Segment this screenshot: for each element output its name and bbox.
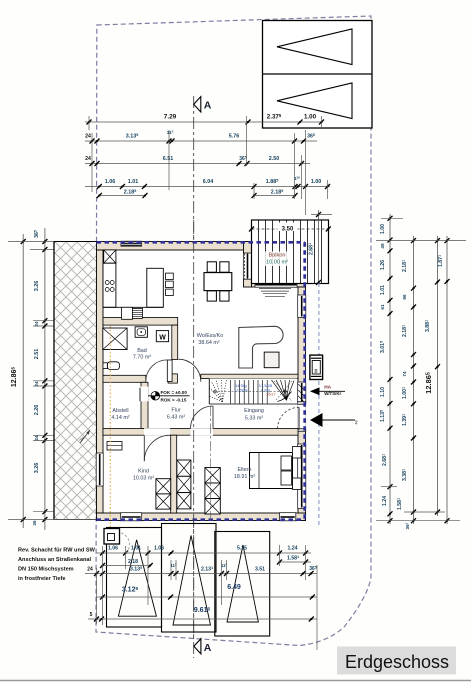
svg-text:1.26: 1.26: [380, 260, 386, 270]
kitchen counter bottom edge: [103, 306, 163, 308]
right wall window 3 (Eltern): [298, 444, 306, 509]
svg-text:1.10: 1.10: [380, 387, 386, 397]
svg-text:1.01: 1.01: [380, 285, 386, 295]
Abstell door opening: [141, 387, 149, 402]
hatched terrace area: [54, 242, 97, 520]
svg-text:Eingang: Eingang: [244, 408, 264, 414]
top exterior wall: [97, 242, 252, 251]
property boundary (dashed): [96, 16, 371, 646]
svg-text:18.91 m²: 18.91 m²: [234, 474, 255, 480]
section line A-A: [193, 96, 195, 658]
bottom dim sub 2.18: [103, 565, 151, 567]
corner wall window: [243, 253, 251, 279]
kitchen island: [147, 268, 164, 307]
svg-text:16/17: 16/17: [267, 393, 276, 397]
svg-text:10.00 m²: 10.00 m²: [266, 260, 288, 266]
svg-text:2.51: 2.51: [34, 349, 40, 360]
upper floor outline dashed blue right: [303, 242, 306, 519]
Kind shelf: [107, 442, 122, 451]
svg-text:7.70 m²: 7.70 m²: [133, 355, 151, 361]
washing machine W: [156, 331, 168, 342]
section marker A top: [194, 97, 201, 112]
shower: [103, 328, 127, 350]
upper floor outline dashed blue bottom: [97, 518, 305, 521]
svg-text:3.26: 3.26: [34, 463, 40, 474]
pillows: [281, 456, 292, 470]
balcony right dim: [318, 210, 320, 283]
left dim chain inner: [44, 228, 46, 530]
corner wall at balcony: [244, 242, 252, 288]
svg-text:24: 24: [34, 435, 39, 441]
svg-text:6.49: 6.49: [227, 584, 241, 591]
upper floor outline dashed blue top: [97, 241, 306, 244]
wall Kind/Eltern divider: [171, 435, 177, 513]
garage outline: [263, 21, 373, 129]
carport box 2: [162, 524, 217, 633]
svg-text:DN 150 Mischsystem: DN 150 Mischsystem: [18, 567, 74, 573]
garage roof arrow 1: [277, 29, 352, 65]
svg-text:24: 24: [85, 156, 91, 162]
svg-text:1.01: 1.01: [131, 546, 141, 552]
balcony door/window band: [255, 279, 297, 287]
left wall window (Kind): [96, 453, 103, 486]
svg-text:1.00: 1.00: [380, 224, 386, 234]
slope arrow 2%: [80, 430, 90, 443]
entrance door arc: [278, 407, 300, 429]
svg-text:1.24: 1.24: [287, 546, 297, 552]
kitchen wall cabinets: [166, 273, 174, 279]
bottom dim row 3: [97, 596, 318, 598]
carport roof arrow 3: [227, 545, 258, 622]
carport roof arrow 2: [173, 536, 211, 626]
right wall window 1: [298, 295, 306, 318]
Eltern wardrobe 2: [205, 468, 220, 484]
svg-text:17,5/28: 17,5/28: [234, 387, 248, 392]
carport box 3: [215, 532, 270, 637]
wall Bad bottom: [103, 375, 146, 382]
sofa: [239, 326, 283, 368]
stair winder cross dashes: [274, 381, 292, 401]
svg-text:Bad: Bad: [137, 348, 147, 354]
balcony label: [265, 252, 289, 267]
top wall window roller box: [121, 241, 143, 247]
svg-text:5: 5: [90, 612, 93, 618]
wall kitchen/Bad: [103, 317, 178, 325]
svg-text:2.50: 2.50: [269, 156, 280, 162]
svg-text:4 Stg: 4 Stg: [261, 387, 270, 392]
svg-text:1.06: 1.06: [154, 546, 164, 552]
bottom dim row 1: [97, 552, 312, 554]
stair straight steps: [229, 380, 231, 404]
living door arc: [178, 359, 201, 382]
balcony dim 3.50: [252, 228, 329, 230]
svg-text:Wo/Ess/Ko: Wo/Ess/Ko: [197, 333, 224, 339]
svg-text:5.25: 5.25: [237, 546, 247, 552]
top dim row 4: [85, 186, 330, 188]
bottom exterior wall: [97, 513, 306, 521]
svg-text:24: 24: [87, 567, 93, 573]
svg-text:3.50: 3.50: [282, 227, 294, 233]
Bad door leaf: [167, 360, 172, 382]
svg-text:49: 49: [380, 243, 385, 249]
sofa table: [264, 352, 279, 368]
bottom wall window 1: [121, 513, 142, 521]
entrance door opening: [298, 405, 306, 429]
page footer line: [0, 680, 471, 682]
wall living bottom: [201, 374, 298, 378]
top dim row 3: [85, 163, 310, 165]
svg-text:Erdgeschoss: Erdgeschoss: [345, 652, 449, 672]
svg-text:4.14 m²: 4.14 m²: [111, 415, 129, 421]
svg-text:38.64 m²: 38.64 m²: [198, 340, 219, 346]
entrance arrow: [310, 413, 323, 427]
svg-text:2.18: 2.18: [128, 559, 138, 565]
dining chairs: [207, 262, 216, 272]
svg-text:Eltern: Eltern: [237, 467, 251, 473]
Kind door arc: [144, 435, 170, 461]
wall hallway/bedrooms: [103, 429, 298, 436]
balcony deck: [252, 220, 329, 284]
nightstand 1: [293, 447, 302, 459]
svg-text:1.00: 1.00: [311, 179, 322, 185]
Kind door opening: [144, 428, 170, 435]
stair winder left dotted: [210, 396, 223, 402]
svg-text:W/TS/Kr: W/TS/Kr: [324, 391, 341, 396]
svg-text:24: 24: [85, 134, 91, 140]
svg-text:1.06: 1.06: [105, 179, 116, 185]
svg-text:1.01: 1.01: [128, 179, 139, 185]
right exterior wall: [298, 287, 306, 521]
svg-text:A: A: [204, 642, 212, 654]
top dim row 1: [85, 121, 322, 123]
carport roof arrow 1: [118, 540, 156, 616]
right dim chain B: [413, 236, 415, 524]
svg-text:HA: HA: [324, 385, 331, 391]
svg-text:36: 36: [32, 520, 37, 526]
svg-text:W: W: [159, 335, 166, 342]
svg-text:A: A: [204, 100, 212, 112]
washbasin: [135, 327, 147, 338]
Eltern door opening: [191, 428, 214, 435]
nightstand 2: [293, 478, 302, 490]
toilet: [107, 362, 119, 370]
svg-text:1.00: 1.00: [304, 114, 317, 121]
top dim connectors: [168, 130, 170, 190]
svg-text:6.51: 6.51: [163, 156, 174, 162]
kitchen counter left: [103, 263, 116, 307]
svg-text:74: 74: [402, 371, 407, 377]
svg-text:6.43 m²: 6.43 m²: [167, 415, 185, 421]
svg-text:ROK = -0.15: ROK = -0.15: [161, 397, 187, 402]
right wall window 2: [298, 382, 306, 403]
svg-text:FOK = ±0.00: FOK = ±0.00: [161, 390, 188, 395]
garage divider: [263, 73, 373, 75]
right dim leaders: [381, 217, 403, 219]
title Erdgeschoss: [337, 647, 456, 675]
Bad door arc: [146, 360, 168, 382]
section line A-A through plan: [193, 220, 195, 640]
staircase: [209, 379, 297, 404]
bottom dim row 2: [85, 573, 317, 575]
svg-text:in frostfreier Tiefe: in frostfreier Tiefe: [18, 576, 65, 582]
Eltern wardrobe 1: [177, 460, 191, 476]
building floor background: [97, 242, 306, 521]
svg-text:61: 61: [380, 304, 385, 310]
svg-text:Anschluss an Straßenkanal: Anschluss an Straßenkanal: [18, 557, 92, 563]
svg-text:10.03 m²: 10.03 m²: [133, 476, 154, 482]
svg-text:Abstell: Abstell: [112, 408, 128, 414]
svg-text:12.865: 12.865: [10, 367, 18, 388]
left exterior wall: [97, 250, 104, 513]
roof overhang dashed line: [318, 283, 320, 525]
kitchen sink block: [122, 307, 133, 319]
wall Abstell/Flur: [141, 382, 148, 428]
top dim row 2: [85, 140, 317, 142]
right dim chain A: [389, 214, 391, 524]
FOK level marker: [151, 392, 160, 401]
right dim chain D overall: [446, 236, 448, 524]
dishwasher hatch: [132, 308, 142, 318]
stairs left edge: [208, 379, 210, 404]
house connection meter box: [310, 355, 323, 379]
balcony door threshold line: [256, 284, 297, 286]
svg-text:1.06: 1.06: [108, 546, 118, 552]
svg-text:3.51: 3.51: [255, 567, 265, 573]
bed: [250, 453, 293, 489]
svg-text:Balkon: Balkon: [268, 253, 285, 259]
svg-text:7.29: 7.29: [164, 114, 177, 121]
section marker A bottom: [194, 639, 201, 654]
top dim sub row: [99, 195, 145, 197]
svg-text:2.26: 2.26: [34, 405, 40, 416]
orange drainage line: [109, 326, 111, 536]
carport box 1: [107, 528, 162, 628]
Rev Schacht symbol: [104, 529, 120, 545]
balcony steps hatch: [259, 288, 291, 290]
svg-text:5.76: 5.76: [229, 134, 240, 140]
stair winder right: [272, 380, 287, 400]
axis line through Eltern: [210, 406, 212, 520]
svg-text:Kind: Kind: [138, 469, 149, 475]
svg-text:Rev. Schacht für RW und SW: Rev. Schacht für RW und SW: [18, 548, 96, 554]
door pier: [168, 374, 177, 383]
svg-text:6.04: 6.04: [203, 179, 214, 185]
bottom dim sub 1.58: [280, 561, 312, 563]
bottom wall window 2: [280, 513, 296, 521]
garage roof arrow 2: [277, 83, 352, 119]
svg-text:1.24: 1.24: [382, 496, 388, 506]
stove burners: [105, 281, 109, 285]
right dim chain C: [437, 236, 439, 516]
HA arrow: [310, 387, 320, 395]
svg-text:12.865: 12.865: [424, 372, 433, 394]
svg-text:Flur: Flur: [171, 408, 180, 414]
stair walk line: [214, 391, 288, 393]
dining table: [204, 273, 232, 291]
Kind wardrobe: [156, 479, 171, 494]
kitchen tall cabinet X: [104, 250, 116, 263]
svg-text:5.33 m²: 5.33 m²: [245, 416, 263, 422]
wall band below balcony: [252, 280, 306, 288]
svg-text:48: 48: [355, 420, 359, 424]
svg-text:86: 86: [402, 294, 407, 300]
left dim chain outer: [22, 234, 24, 528]
left dim leaders: [8, 241, 54, 243]
svg-text:3.26: 3.26: [34, 281, 40, 292]
bottom dim connectors: [102, 546, 104, 625]
Eltern door arc: [191, 406, 214, 429]
Bad east wall: [172, 325, 178, 359]
bottom dim row 4: [88, 618, 317, 620]
